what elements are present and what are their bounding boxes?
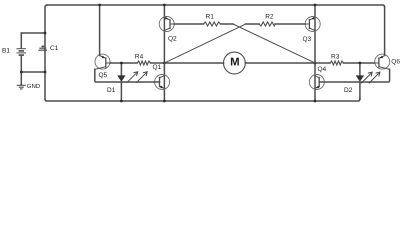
node Q5 collector rail junction bbox=[98, 4, 101, 7]
node Q4 emitter rail junction bbox=[314, 100, 317, 103]
wire diagonal R2 to node A bbox=[164, 24, 245, 63]
svg-text:R4: R4 bbox=[135, 54, 144, 61]
wire Q5 collector from top rail down through Q5 and emitter to Q1 base bbox=[99, 5, 101, 56]
svg-text:Q3: Q3 bbox=[303, 36, 312, 43]
transistor Q4 bbox=[309, 75, 324, 90]
svg-text:D2: D2 bbox=[344, 87, 353, 94]
node D2 anode junction bbox=[359, 62, 362, 65]
node D1 bottom rail junction bbox=[120, 100, 123, 103]
wire Q3 emitter rail through Q3 collector node B Q4 collector Q4 emitter to bottom rail bbox=[314, 5, 316, 101]
wire R2 left lead bbox=[246, 23, 259, 25]
wire battery bottom to left border bbox=[21, 71, 45, 73]
LED D1 bbox=[117, 63, 147, 101]
svg-text:Q2: Q2 bbox=[168, 36, 177, 43]
transistor Q1 bbox=[155, 75, 170, 90]
svg-text:B1: B1 bbox=[2, 48, 10, 55]
svg-text:Q6: Q6 bbox=[391, 58, 400, 65]
node D1 anode junction bbox=[120, 62, 123, 65]
motor M bbox=[224, 52, 246, 74]
svg-text:R3: R3 bbox=[331, 53, 340, 60]
ground bbox=[17, 72, 25, 89]
svg-text:Q4: Q4 bbox=[318, 66, 327, 73]
node Q3 rail junction bbox=[314, 4, 317, 7]
resistor R4 bbox=[137, 61, 151, 65]
transistor Q2 bbox=[159, 17, 174, 32]
svg-text:R2: R2 bbox=[265, 14, 274, 21]
wire Q2 base to R1 bbox=[174, 23, 203, 25]
svg-text:Q1: Q1 bbox=[153, 64, 162, 71]
transistor Q3 bbox=[305, 17, 320, 32]
node Q1 emitter rail junction bbox=[163, 100, 166, 103]
wire Q6 collector from top rail down through Q6 emitter left to Q4 base bbox=[384, 7, 386, 56]
svg-text:GND: GND bbox=[27, 83, 41, 90]
wire R4 to node A bbox=[151, 62, 165, 64]
wire battery top to left border bbox=[21, 32, 45, 34]
wire R1 right lead bbox=[221, 23, 233, 25]
wire Q5 base to R4 bbox=[110, 62, 137, 64]
svg-text:M: M bbox=[230, 56, 240, 68]
node B junction dot bbox=[314, 62, 317, 65]
node left border battery bottom junction bbox=[44, 71, 47, 74]
svg-text:C1: C1 bbox=[50, 45, 59, 52]
transistor Q5 bbox=[95, 54, 110, 69]
wire motor to node B bbox=[245, 62, 315, 64]
battery B1 bbox=[17, 33, 26, 72]
resistor R1 bbox=[203, 22, 220, 26]
wire Q2 emitter rail through Q2 collector node A Q1 collector Q1 emitter to bottom rail bbox=[163, 5, 165, 101]
resistor R2 bbox=[259, 22, 275, 26]
wire left border vertical bbox=[45, 5, 47, 99]
node battery bottom junction bbox=[20, 71, 23, 74]
wire bottom rail bbox=[45, 99, 360, 101]
wire top rail bbox=[47, 5, 385, 7]
node left border battery top junction bbox=[44, 32, 47, 35]
transistor Q6 bbox=[375, 54, 390, 69]
node Q2 rail junction bbox=[163, 4, 166, 7]
svg-text:D1: D1 bbox=[107, 87, 116, 94]
resistor R3 bbox=[330, 61, 344, 65]
wire R2 to Q3 base bbox=[275, 23, 305, 25]
capacitor C1 bbox=[39, 45, 47, 50]
wire R3 to Q6 base through D2 anode bbox=[344, 62, 375, 64]
svg-text:R1: R1 bbox=[206, 14, 215, 21]
LED D2 bbox=[356, 63, 380, 99]
node A junction dot bbox=[163, 62, 166, 65]
svg-text:Q5: Q5 bbox=[99, 72, 108, 79]
wire node B to R3 bbox=[315, 62, 330, 64]
wire diagonal R1 to node B bbox=[233, 24, 315, 63]
wire node A to motor bbox=[164, 62, 223, 64]
